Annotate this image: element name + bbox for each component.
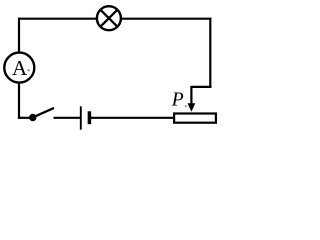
wire left vertical lower (ammeter to bottom corner) [18,83,20,119]
lamp L1 (circle with X) [97,6,121,30]
wiper arrow of rheostat [188,86,196,112]
battery B1 [81,106,90,129]
svg-text:P: P [171,89,184,110]
wire right vertical (top corner down to jog) [209,18,211,88]
wire switch to battery [54,117,81,119]
rheostat R1 body [174,114,216,123]
wire top-left segment (lamp to left corner) [19,18,98,20]
svg-text:A: A [12,56,28,80]
wire bottom-left (corner to switch) [18,117,33,119]
wire top-right segment (lamp to right corner) [121,18,212,20]
ammeter U1 [4,53,34,83]
wire battery to rheostat [91,117,174,119]
switch S1 [29,108,54,121]
wire jog horizontal [191,86,211,88]
wire left vertical upper (corner to ammeter) [18,18,20,53]
